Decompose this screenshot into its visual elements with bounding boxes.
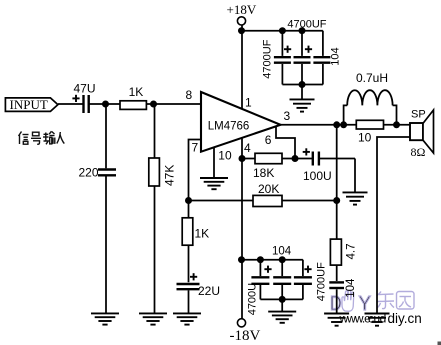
svg-text:SP: SP — [411, 109, 426, 121]
svg-text:0.7uH: 0.7uH — [356, 71, 388, 85]
svg-text:20K: 20K — [258, 182, 279, 196]
svg-text:7: 7 — [192, 141, 199, 155]
svg-text:47K: 47K — [163, 165, 177, 186]
svg-text:47U: 47U — [74, 82, 96, 96]
svg-text:+18V: +18V — [227, 2, 257, 17]
svg-text:4700UF: 4700UF — [316, 262, 328, 301]
svg-text:18K: 18K — [253, 166, 274, 180]
svg-text:1K: 1K — [195, 227, 210, 241]
svg-text:4700U: 4700U — [247, 283, 259, 315]
svg-text:3: 3 — [284, 109, 291, 123]
svg-text:104: 104 — [272, 246, 292, 258]
svg-text:1K: 1K — [129, 85, 144, 99]
svg-text:1: 1 — [245, 96, 252, 110]
svg-text:10: 10 — [358, 131, 372, 145]
svg-text:100U: 100U — [303, 169, 332, 183]
svg-text:4700UF: 4700UF — [262, 39, 274, 78]
svg-text:4.7: 4.7 — [346, 244, 358, 260]
svg-text:6: 6 — [265, 133, 272, 147]
svg-text:diy.cn: diy.cn — [388, 311, 422, 326]
svg-text:LM4766: LM4766 — [208, 121, 250, 133]
svg-text:104: 104 — [330, 47, 342, 65]
svg-text:10: 10 — [218, 149, 232, 163]
svg-text:8: 8 — [186, 88, 193, 102]
svg-text:4700UF: 4700UF — [287, 19, 326, 31]
svg-text:22U: 22U — [198, 284, 220, 298]
svg-text:INPUT: INPUT — [10, 97, 48, 112]
svg-text:-18V: -18V — [230, 328, 261, 344]
svg-text:8Ω: 8Ω — [411, 145, 426, 159]
svg-text:4: 4 — [244, 141, 251, 155]
svg-text:104: 104 — [345, 278, 357, 298]
svg-text:220: 220 — [79, 166, 99, 180]
